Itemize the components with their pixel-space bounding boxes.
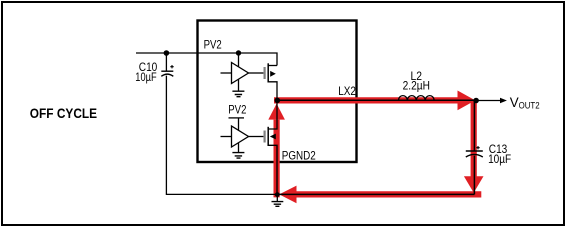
driver U1a supply stub bbox=[238, 53, 240, 67]
transistor Q2 channel bar bbox=[267, 127, 269, 146]
svg-text:10µF: 10µF bbox=[488, 152, 511, 166]
ground symbol (driver U1b) bbox=[232, 153, 244, 159]
wire PV2 input rail bbox=[136, 53, 277, 66]
capacitor C13 lead top bbox=[473, 101, 475, 152]
transistor Q1 source lead bbox=[268, 82, 277, 101]
wire bottom return (under red) bbox=[277, 193, 474, 195]
capacitor C10 bottom curved plate bbox=[161, 74, 173, 76]
wire output arrow shaft bbox=[476, 100, 500, 102]
driver U1b supply stub bbox=[238, 118, 240, 131]
ground symbol (driver U1a) bbox=[232, 91, 244, 97]
capacitor C13 lead bottom bbox=[473, 156, 475, 195]
svg-text:LX2: LX2 bbox=[338, 84, 356, 98]
svg-text:OFF CYCLE: OFF CYCLE bbox=[30, 105, 97, 121]
red current loop: left arrowhead bbox=[279, 186, 296, 204]
red current loop: right arrowhead bbox=[458, 91, 476, 111]
red current loop: right shaft bbox=[471, 100, 477, 177]
capacitor C13 plus sign bbox=[476, 146, 479, 149]
red current loop: up arrowhead bbox=[268, 104, 285, 120]
driver U1b input lead bbox=[221, 136, 232, 138]
svg-text:V: V bbox=[510, 95, 519, 110]
transistor Q2 body arrow (points left) bbox=[270, 134, 276, 140]
IC box U1 bbox=[198, 21, 357, 163]
svg-text:10µF: 10µF bbox=[135, 70, 156, 84]
red current loop: bottom shaft bbox=[296, 191, 481, 197]
node: driver supply tap junction bbox=[236, 50, 241, 55]
node LX2 junction bbox=[275, 98, 281, 104]
capacitor C13 top plate bbox=[466, 150, 483, 152]
capacitor C13 bottom curved plate bbox=[466, 154, 483, 157]
PV2 T-bar (bottom driver) bbox=[229, 117, 245, 119]
red current loop: left shaft bbox=[274, 120, 280, 198]
transistor Q2 gate lead bbox=[249, 136, 264, 138]
svg-text:PV2: PV2 bbox=[228, 103, 246, 117]
red current loop: down arrowhead bbox=[464, 176, 484, 193]
driver U1b triangle bbox=[232, 126, 249, 147]
capacitor C10 lead top bbox=[165, 53, 167, 71]
transistor Q1 channel bar bbox=[267, 63, 269, 82]
transistor Q2 gate bar bbox=[264, 131, 266, 143]
driver U1a triangle bbox=[232, 63, 249, 84]
transistor Q2 source lead bbox=[268, 145, 277, 194]
transistor Q1 body arrow (points right) bbox=[270, 71, 276, 77]
transistor Q1 gate bar bbox=[264, 67, 266, 79]
node output junction bbox=[473, 98, 479, 104]
ground symbol (bottom) bbox=[272, 202, 284, 207]
wire LX2 to output node bbox=[277, 99, 476, 101]
svg-text:PGND2: PGND2 bbox=[282, 149, 316, 163]
node ground junction bbox=[275, 192, 280, 197]
svg-text:OUT2: OUT2 bbox=[519, 101, 540, 112]
transistor Q2 drain lead bbox=[268, 100, 277, 129]
transistor Q1 gate lead bbox=[249, 72, 264, 74]
driver U1a ground stub bbox=[238, 79, 240, 91]
ground stub (bottom) bbox=[276, 195, 278, 202]
capacitor C10 plus sign bbox=[170, 65, 173, 68]
output arrowhead bbox=[500, 98, 507, 104]
capacitor C10 top plate bbox=[161, 70, 173, 72]
transistor Q1 drain lead bbox=[268, 65, 277, 67]
svg-text:PV2: PV2 bbox=[204, 37, 222, 51]
inductor L2 winding bbox=[398, 96, 434, 101]
driver U1b ground stub bbox=[238, 143, 240, 153]
svg-text:2.2µH: 2.2µH bbox=[403, 79, 430, 93]
red current loop: top shaft bbox=[274, 97, 459, 103]
driver U1a input lead bbox=[221, 72, 232, 74]
node: C10 tap junction bbox=[164, 50, 170, 56]
capacitor C10 lead bottom + wire to ground junction bbox=[166, 76, 277, 195]
